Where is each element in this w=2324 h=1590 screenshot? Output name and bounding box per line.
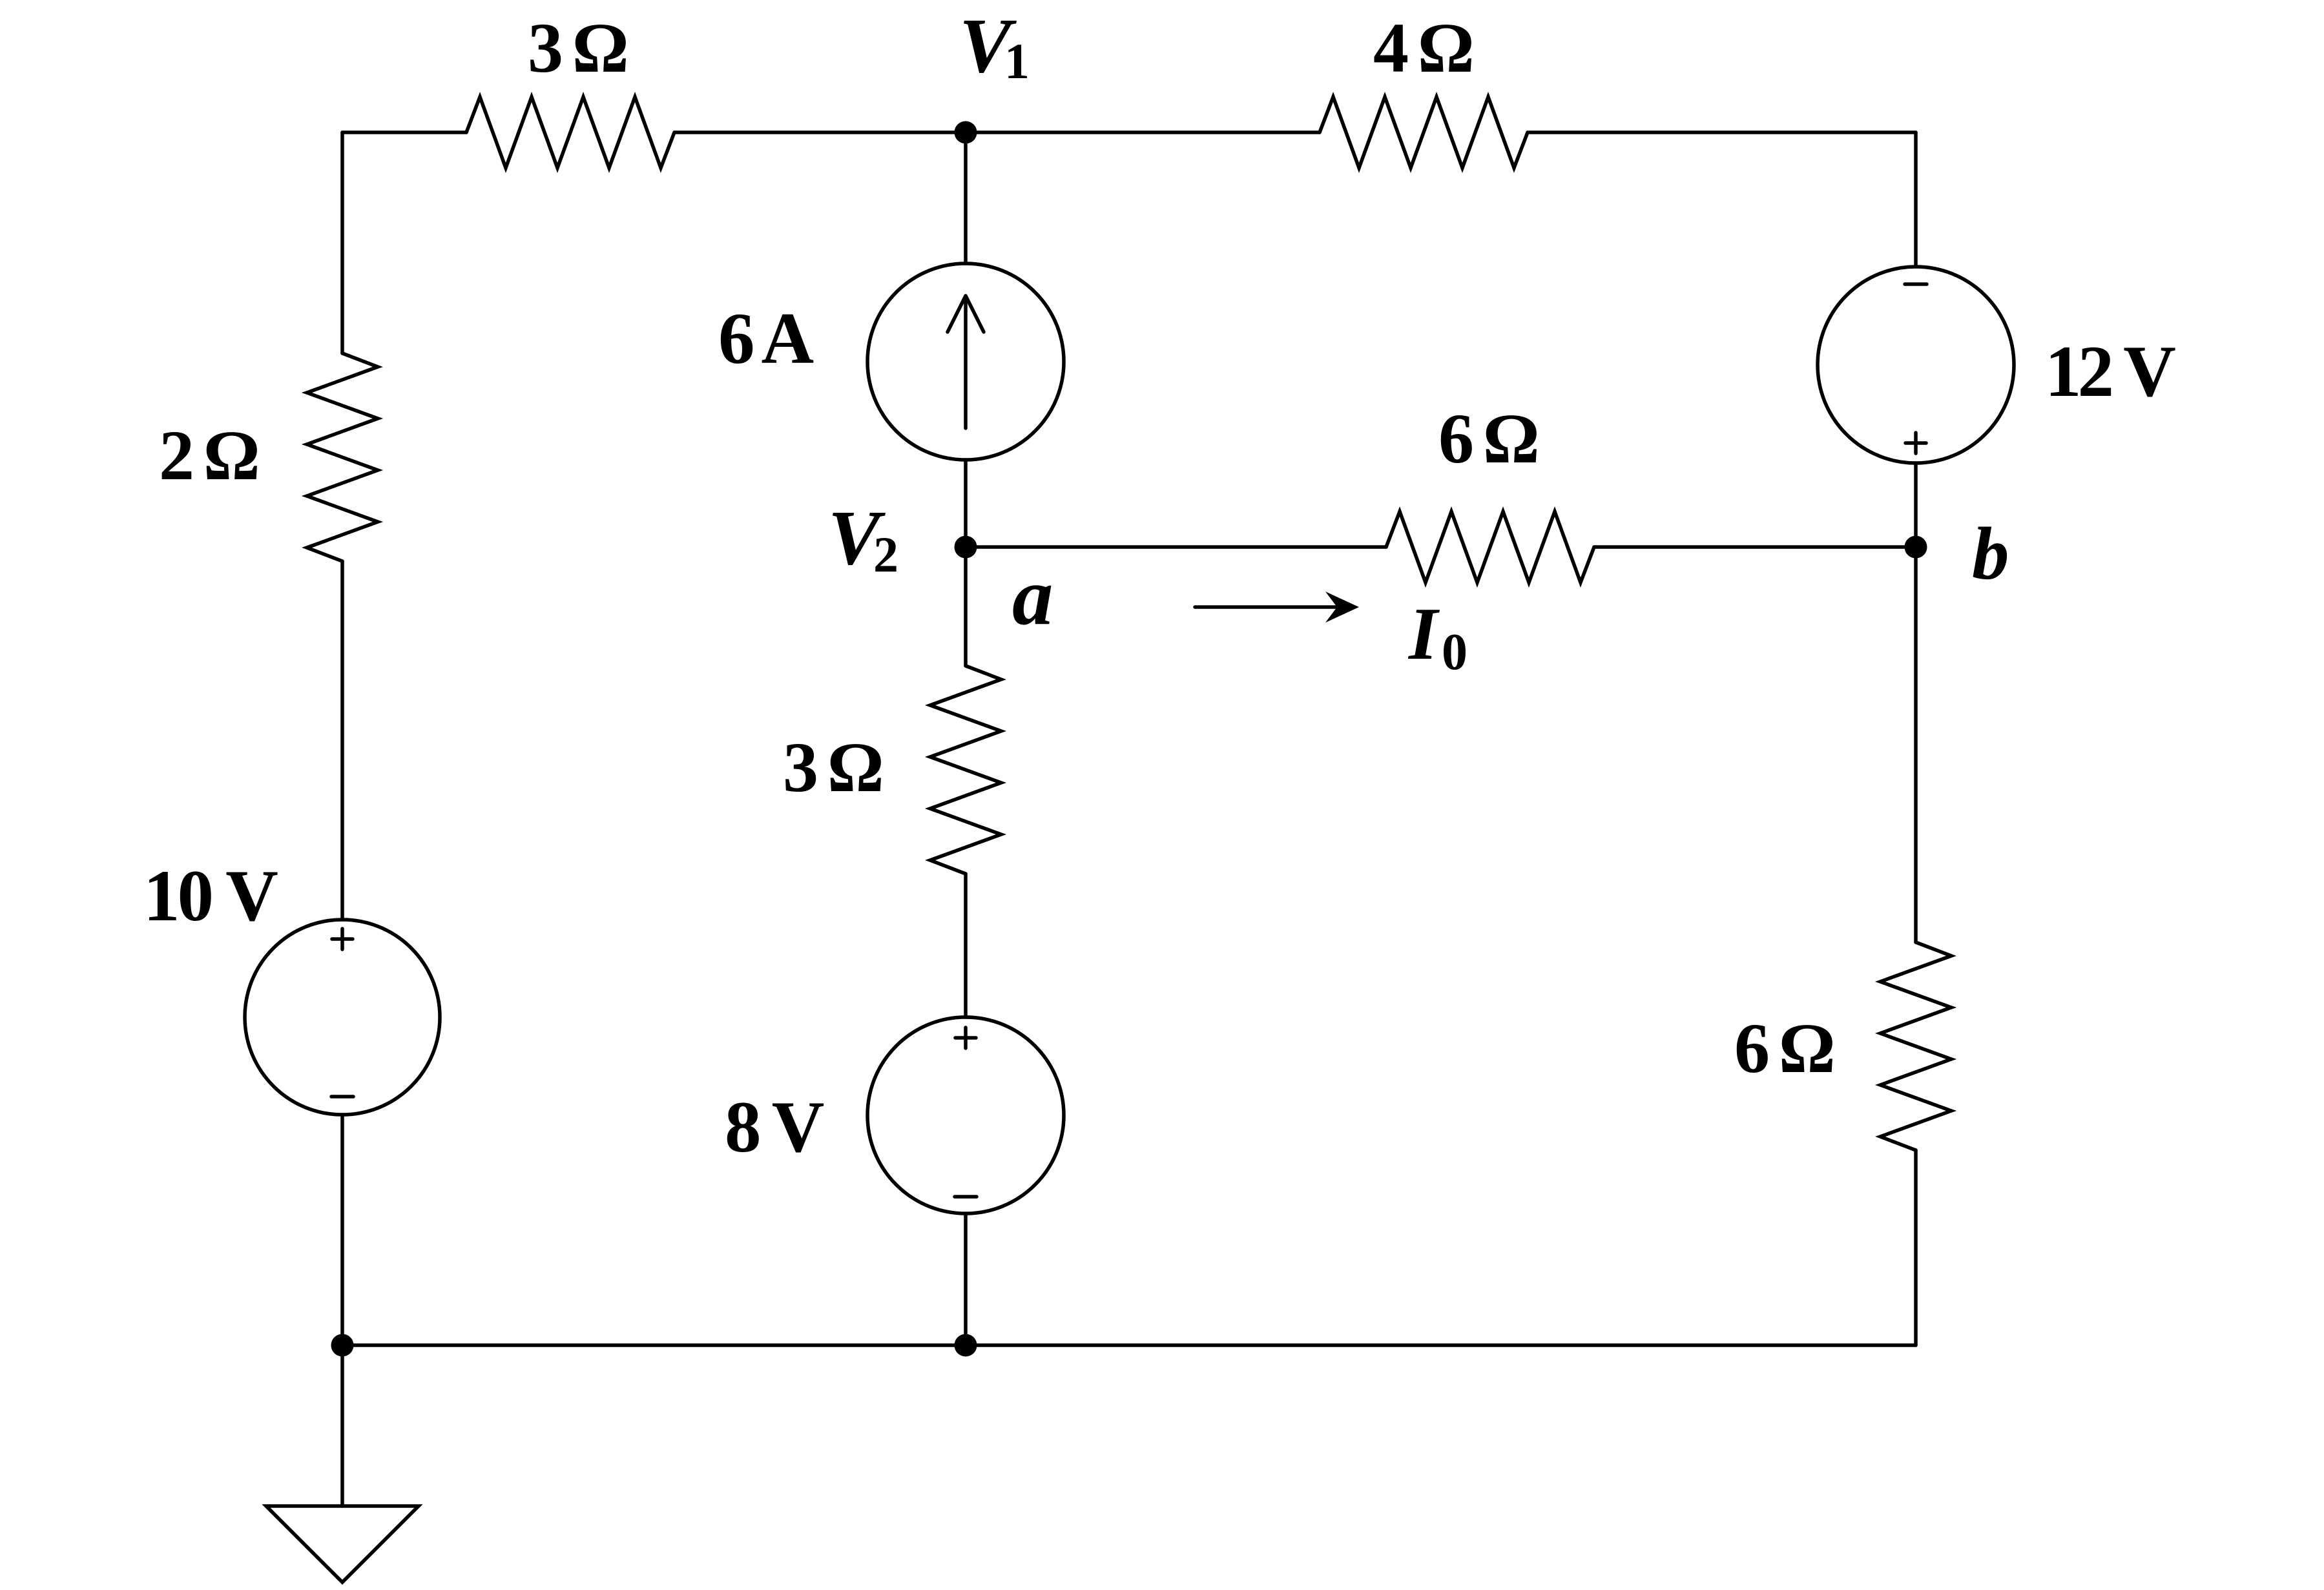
resistor R3 2ohm (left) xyxy=(307,353,378,561)
wire 3ohm resistor to 8V source xyxy=(964,874,968,1017)
voltage source V12 circle xyxy=(1818,267,2014,463)
svg-text:2: 2 xyxy=(873,526,898,583)
wire left rail upper xyxy=(340,132,344,353)
resistor R1 3ohm (top left) xyxy=(466,97,674,168)
wire 6ohm right resistor to bottom rail xyxy=(1914,1150,1918,1345)
wire 6A source to V2 node xyxy=(964,460,968,547)
svg-text:8 V: 8 V xyxy=(725,1087,824,1168)
wire top-right corner down to 12V source xyxy=(1914,132,1918,267)
wire top-middle segment xyxy=(674,130,1320,134)
node V1 junction dot xyxy=(955,121,977,144)
wire V2 node to 6ohm resistor xyxy=(966,545,1386,549)
ground symbol triangle xyxy=(266,1506,419,1582)
svg-text:10 V: 10 V xyxy=(143,856,278,936)
wire top-right segment xyxy=(1528,130,1916,134)
svg-text:12 V: 12 V xyxy=(2045,331,2175,412)
resistor R4 3ohm (middle vertical) xyxy=(930,666,1001,874)
arrow inside 6A source xyxy=(948,296,984,428)
wire node b to 6ohm resistor (right) xyxy=(1914,547,1918,942)
wire V2 node to 3ohm resistor xyxy=(964,547,968,666)
resistor R2 4ohm (top right) xyxy=(1320,97,1528,168)
voltage source V8 circle xyxy=(867,1017,1064,1213)
wire 6ohm resistor to node b xyxy=(1594,545,1916,549)
resistor R6 6ohm (right vertical) xyxy=(1880,942,1951,1150)
node V2 junction dot xyxy=(955,536,977,559)
current source I1 6A circle xyxy=(867,263,1064,460)
svg-text:6 Ω: 6 Ω xyxy=(1734,1009,1833,1088)
minus sign of 8V source xyxy=(955,1195,977,1199)
wire 12V source to node b xyxy=(1914,463,1918,547)
wire left rail lower xyxy=(340,1115,344,1345)
current arrow I0 xyxy=(1195,605,1337,609)
svg-text:a: a xyxy=(1012,552,1053,642)
svg-text:6 A: 6 A xyxy=(718,298,814,379)
svg-text:6 Ω: 6 Ω xyxy=(1438,399,1537,478)
bottom-left junction dot xyxy=(331,1334,354,1357)
node b junction dot xyxy=(1905,536,1927,559)
svg-text:3 Ω: 3 Ω xyxy=(528,8,627,87)
wire top-left segment xyxy=(342,130,466,134)
resistor R5 6ohm (middle horizontal) xyxy=(1386,511,1594,583)
svg-text:1: 1 xyxy=(1004,33,1030,89)
wire 8V source to bottom rail xyxy=(964,1213,968,1345)
ground stem wire xyxy=(340,1345,344,1506)
plus sign of 8V source xyxy=(955,1027,976,1048)
plus sign of 10V source xyxy=(332,929,353,949)
bottom rail wire xyxy=(342,1343,1916,1347)
wire left rail middle xyxy=(340,561,344,920)
minus sign of 12V source xyxy=(1905,282,1927,286)
voltage source V10 circle xyxy=(245,920,440,1115)
svg-text:3 Ω: 3 Ω xyxy=(783,728,882,807)
plus sign of 12V source xyxy=(1905,433,1926,453)
svg-text:2 Ω: 2 Ω xyxy=(159,416,258,495)
svg-text:4 Ω: 4 Ω xyxy=(1373,8,1472,87)
minus sign of 10V source xyxy=(331,1095,353,1099)
arrowhead of I0 xyxy=(1325,592,1359,623)
wire V1 node to 6A source xyxy=(964,132,968,263)
svg-text:b: b xyxy=(1972,513,2009,595)
svg-text:I: I xyxy=(1407,593,1440,675)
bottom-middle junction dot xyxy=(955,1334,977,1357)
svg-text:0: 0 xyxy=(1442,624,1468,681)
